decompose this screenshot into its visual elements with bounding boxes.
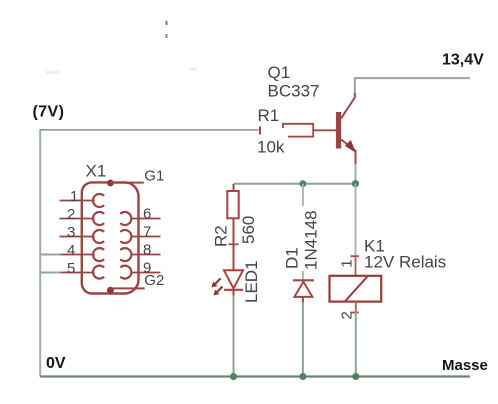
wire LED to ground rail xyxy=(233,296,235,377)
wire relay pin2 to ground rail xyxy=(355,312,357,377)
resistor R1 xyxy=(260,124,336,137)
svg-text:D1: D1 xyxy=(283,247,302,269)
connector pin 1 xyxy=(60,194,105,207)
diode D1 xyxy=(293,280,314,303)
wire to pin 4 xyxy=(40,254,60,256)
connector pin 2 xyxy=(60,212,105,225)
connector pin 9 xyxy=(120,266,160,279)
junction node D1/ground xyxy=(299,373,306,380)
wire bottom ground rail xyxy=(40,375,470,377)
svg-text:G1: G1 xyxy=(144,168,164,185)
svg-text:1N4148: 1N4148 xyxy=(302,210,321,270)
wire D1 to ground rail xyxy=(302,302,304,377)
svg-text:2: 2 xyxy=(67,206,75,223)
svg-text:8: 8 xyxy=(143,242,151,259)
svg-text:BC337: BC337 xyxy=(268,82,320,101)
relay K1 xyxy=(330,256,382,312)
junction node emitter/relay xyxy=(352,180,359,187)
svg-text:560: 560 xyxy=(239,216,258,244)
connector pin G2 xyxy=(107,287,145,294)
connector pin 4 xyxy=(60,248,105,261)
svg-text:(7V): (7V) xyxy=(33,104,65,121)
LED LED1 xyxy=(212,270,244,297)
connector pin 6 xyxy=(120,212,160,225)
svg-text:X1: X1 xyxy=(86,162,107,181)
svg-text:4: 4 xyxy=(67,242,75,259)
wire left 7V rail vertical xyxy=(39,129,41,377)
junction node D1 top xyxy=(300,180,307,187)
svg-text:Masse: Masse xyxy=(442,357,488,374)
svg-text:R1: R1 xyxy=(258,106,280,125)
label background xyxy=(299,206,317,271)
svg-text:0V: 0V xyxy=(46,355,66,372)
wire top rail 13,4V xyxy=(355,77,470,79)
svg-text:1: 1 xyxy=(339,259,356,267)
connector X1 body xyxy=(82,182,139,293)
junction node relay/ground xyxy=(352,373,359,380)
wire emitter to junction xyxy=(355,164,357,184)
wire mid rail xyxy=(234,183,356,185)
svg-text:9: 9 xyxy=(143,260,151,277)
wire to pin 5 xyxy=(40,272,60,274)
svg-text:13,4V: 13,4V xyxy=(442,52,484,69)
wire relay pin1 from junction xyxy=(355,184,357,256)
svg-text:LED1: LED1 xyxy=(242,260,261,303)
resistor R2 xyxy=(227,184,238,270)
wire collector drop xyxy=(354,77,356,94)
connector pin 8 xyxy=(120,248,160,261)
svg-text:3: 3 xyxy=(67,224,75,241)
svg-text:10k: 10k xyxy=(257,138,285,157)
junction node LED/ground xyxy=(230,373,237,380)
svg-text:Q1: Q1 xyxy=(268,63,291,82)
transistor Q1 xyxy=(336,93,356,166)
svg-text:12V Relais: 12V Relais xyxy=(364,253,446,272)
svg-text:5: 5 xyxy=(67,260,75,277)
connector pin 7 xyxy=(120,230,160,243)
svg-text:7: 7 xyxy=(143,224,151,241)
connector pin 3 xyxy=(60,230,105,243)
scan artifact marks xyxy=(46,21,197,74)
connector pin G1 xyxy=(107,180,144,187)
svg-text:1: 1 xyxy=(70,188,78,205)
connector pin 5 xyxy=(60,266,105,279)
wire D1 top xyxy=(302,184,304,280)
svg-text:2: 2 xyxy=(339,311,356,319)
wire 7V to R1 xyxy=(40,129,258,131)
svg-text:6: 6 xyxy=(143,206,151,223)
svg-text:R2: R2 xyxy=(212,225,231,247)
